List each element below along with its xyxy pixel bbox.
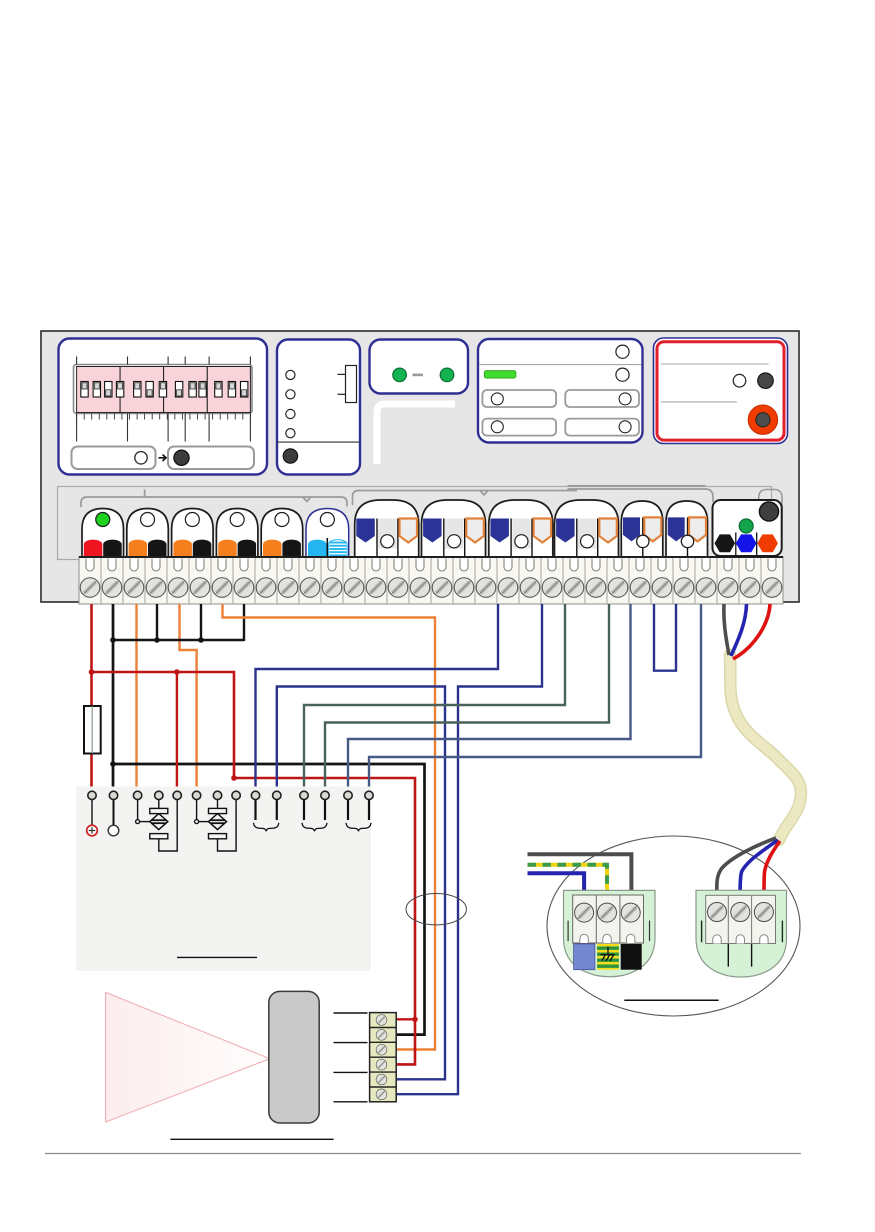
keypad zone pair stems — [256, 800, 370, 820]
wire: black T8 drop — [243, 604, 245, 641]
wire: mains gray from T30 — [724, 604, 729, 655]
zone pair brace 3 — [346, 823, 371, 831]
zone group line B2 — [353, 491, 578, 506]
zone connector dome D8 — [422, 500, 486, 557]
wire: slate T29 to keypad 14 — [369, 604, 701, 791]
control panel enclosure — [41, 331, 799, 602]
status box U4 — [478, 339, 643, 443]
mains label line — [624, 999, 718, 1001]
wire: navy T21 to PIR 6 — [397, 604, 542, 1094]
keypad terminals 1-14 — [88, 791, 373, 799]
mains flex sheath — [730, 655, 801, 840]
wire: red 12V rail — [92, 672, 416, 1064]
wire: navy jumper T26-T27 — [654, 604, 676, 671]
wire: red branch to keypad 5 — [176, 672, 178, 791]
zone connector dome D2 — [127, 509, 169, 558]
wire: orange T7 to PIR 3 — [223, 604, 436, 1050]
wire: orange T5 to keypad 6 — [180, 604, 197, 791]
footer rule — [45, 1153, 801, 1155]
group bracket B4 — [759, 490, 782, 520]
zone connector dome D12 — [666, 501, 708, 557]
keypad body — [76, 787, 371, 972]
zone connector dome D7 — [355, 500, 419, 557]
wire: slate T25 to keypad 13 — [348, 604, 631, 791]
wire: navy T19 to keypad 9 — [256, 604, 499, 791]
zone connector dome D11 — [621, 501, 663, 557]
power box U5 (red bordered) — [654, 338, 788, 444]
PIR label line — [170, 1138, 333, 1140]
wire: navy keypad 10 to PIR 5 — [277, 687, 445, 1080]
keypad power symbols — [87, 800, 119, 836]
programmer box U1 (DIP switches) — [59, 339, 268, 475]
wire: red branch to PIR 1 — [397, 1018, 415, 1020]
output connector box D13 — [713, 500, 782, 556]
keypad zone network N1 (diode + resistors) — [136, 800, 178, 851]
wire: incoming live (gray) — [528, 854, 632, 894]
zone connector dome D6 (flood/panic, cyan) — [306, 509, 349, 558]
keypad zone network N2 (diode + resistors) — [195, 800, 237, 851]
zone connector dome D9 — [489, 500, 553, 557]
wire: black T4 drop — [156, 604, 158, 641]
terminal strip base — [79, 557, 783, 605]
wire: black T6 drop — [200, 604, 202, 641]
fuse F1 — [84, 706, 101, 754]
mains terminal block TB1 — [564, 890, 656, 976]
wire: mains blue from T31 — [731, 604, 747, 656]
zone pair brace 1 — [254, 823, 279, 831]
wire: orange T3 to keypad 3 — [135, 604, 137, 791]
keypad label line — [177, 956, 257, 958]
wire: incoming earth (green/yellow) — [528, 865, 608, 894]
zone connector dome D4 — [216, 509, 258, 558]
wire: black T2 to keypad 2 — [112, 604, 115, 791]
wire: black bus — [113, 639, 244, 641]
junction dots black bus — [110, 637, 204, 643]
junction dots red — [89, 669, 418, 1022]
zone group line B3 — [568, 485, 706, 487]
zone connector dome D3 — [172, 509, 214, 558]
zone connector dome D1 — [82, 509, 124, 558]
LED indicator box U3 — [370, 340, 469, 394]
wire: flex blue tail — [740, 840, 778, 896]
zone group bracket B1 — [81, 497, 347, 507]
zone connector dome D5 — [261, 509, 303, 558]
zone pair brace 2 — [302, 823, 327, 831]
wire: red T1 to keypad 1 — [90, 604, 93, 791]
wire: teal T22 to keypad 11 — [304, 604, 565, 791]
mains terminal block TB2 — [696, 890, 787, 977]
wire: black 0V to PIR 2 — [113, 764, 425, 1035]
jumper header box U2 — [277, 340, 360, 475]
wire: incoming neutral (blue) — [528, 873, 585, 894]
wire: flex red tail — [764, 841, 780, 896]
wire: teal T24 to keypad 12 — [325, 604, 609, 791]
connector bay recess outline — [58, 487, 772, 560]
wire: flex gray tail — [717, 838, 776, 896]
PIR terminal leader lines — [334, 1013, 368, 1102]
cable bundle oval — [406, 894, 466, 925]
strip top edge — [79, 556, 783, 558]
zone connector dome D10 — [555, 500, 619, 557]
terminal screws 1-32 — [80, 559, 782, 598]
PIR body — [269, 991, 319, 1123]
mains detail ellipse — [547, 836, 800, 1016]
wire: mains red from T32 — [733, 604, 770, 659]
cable channel (white elbow) — [377, 404, 455, 464]
PIR terminal block — [370, 1013, 397, 1102]
